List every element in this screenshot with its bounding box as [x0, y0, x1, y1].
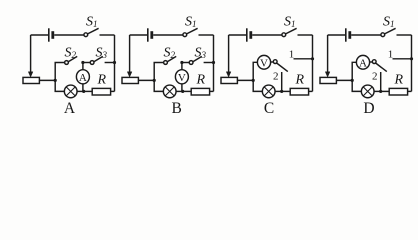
- svg-text:S1: S1: [383, 15, 395, 30]
- svg-text:D: D: [363, 100, 374, 117]
- svg-text:A: A: [64, 100, 76, 117]
- svg-text:R: R: [394, 73, 404, 88]
- svg-text:S3: S3: [96, 46, 108, 61]
- svg-text:V: V: [178, 72, 186, 84]
- svg-text:A: A: [359, 57, 367, 69]
- svg-text:S2: S2: [164, 46, 176, 61]
- svg-text:S1: S1: [185, 15, 197, 30]
- svg-text:S3: S3: [195, 46, 207, 61]
- svg-text:S2: S2: [65, 46, 77, 61]
- svg-text:B: B: [172, 100, 182, 117]
- svg-text:A: A: [79, 72, 87, 84]
- svg-text:2: 2: [372, 70, 378, 82]
- svg-text:R: R: [295, 73, 305, 88]
- svg-text:R: R: [97, 73, 107, 88]
- svg-text:V: V: [260, 57, 268, 69]
- svg-text:C: C: [264, 100, 274, 117]
- svg-text:S1: S1: [284, 15, 296, 30]
- svg-text:1: 1: [388, 49, 394, 61]
- svg-text:S1: S1: [86, 15, 98, 30]
- svg-text:1: 1: [289, 49, 295, 61]
- svg-text:2: 2: [273, 70, 279, 82]
- svg-text:R: R: [196, 73, 206, 88]
